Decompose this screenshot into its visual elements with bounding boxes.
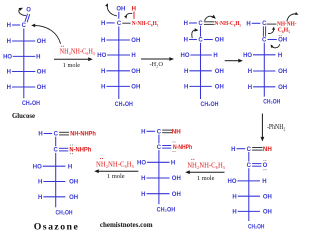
svg-text:HO: HO bbox=[33, 164, 42, 170]
S5 chain vertical bond bbox=[248, 168, 250, 221]
svg-text:C: C bbox=[157, 145, 162, 151]
svg-text:H: H bbox=[7, 70, 11, 76]
S6 C1=NH double bond bbox=[162, 129, 172, 131]
svg-text:C: C bbox=[262, 21, 267, 27]
arrow S4 down bbox=[261, 114, 263, 138]
svg-text:OH: OH bbox=[37, 85, 46, 91]
arrow S1 to S2 bbox=[54, 58, 89, 60]
svg-text:OH: OH bbox=[278, 69, 287, 75]
svg-text:C: C bbox=[117, 21, 122, 27]
glucose chain vertical bond bbox=[23, 28, 25, 98]
S4 chain vertical bond bbox=[263, 43, 265, 97]
svg-text:OH: OH bbox=[278, 85, 287, 91]
svg-text:H: H bbox=[232, 210, 236, 216]
svg-text:1 mole: 1 mole bbox=[197, 175, 215, 182]
svg-text:C: C bbox=[198, 38, 203, 44]
curved arrow on glucose C=O bbox=[19, 9, 26, 15]
svg-text:H: H bbox=[7, 23, 11, 29]
arrow S2 to S3 bbox=[141, 58, 170, 60]
svg-text:H: H bbox=[7, 39, 11, 45]
svg-text:-H₂O: -H₂O bbox=[149, 61, 163, 68]
svg-text:H: H bbox=[141, 129, 145, 135]
svg-text:NH: NH bbox=[263, 147, 272, 153]
svg-text:NH₂NH-C₆H₅: NH₂NH-C₆H₅ bbox=[96, 162, 134, 169]
svg-text:-PhNH₂: -PhNH₂ bbox=[267, 123, 286, 131]
svg-text:H: H bbox=[246, 21, 250, 27]
svg-text:C: C bbox=[262, 38, 267, 44]
S7 C1=N double bond bbox=[59, 131, 69, 133]
svg-text:NH: NH bbox=[172, 129, 181, 135]
svg-text:H: H bbox=[101, 69, 105, 75]
svg-text:NH-NHPh: NH-NHPh bbox=[70, 132, 96, 138]
svg-text:H: H bbox=[184, 69, 188, 75]
svg-text:1 mole: 1 mole bbox=[107, 173, 125, 180]
svg-text:CH₂OH: CH₂OH bbox=[56, 210, 73, 217]
svg-text:H: H bbox=[248, 85, 252, 91]
S5 C1=NH double bond bbox=[252, 147, 263, 149]
svg-text:OH: OH bbox=[172, 176, 181, 182]
svg-text:C: C bbox=[22, 23, 27, 29]
svg-text:Osazone: Osazone bbox=[34, 221, 80, 232]
S4 curved arrow C to N bbox=[268, 28, 274, 34]
arrow S3 to S4 bbox=[225, 60, 239, 62]
svg-text:Glucose: Glucose bbox=[12, 113, 35, 120]
svg-text:OH: OH bbox=[172, 192, 181, 198]
svg-text:C₆H₅: C₆H₅ bbox=[278, 26, 290, 33]
svg-text:H: H bbox=[184, 85, 188, 91]
S3 C1-C2 bond bbox=[200, 26, 202, 37]
svg-text:H: H bbox=[101, 85, 105, 91]
svg-text:1 mole: 1 mole bbox=[63, 62, 80, 69]
S4 C1-N bond bbox=[267, 23, 277, 25]
svg-text:H: H bbox=[38, 180, 42, 186]
S3 C2-OH bond bbox=[204, 39, 213, 41]
svg-text:N-NHPh: N-NHPh bbox=[173, 145, 192, 151]
S7 C1-C2 bond bbox=[55, 137, 57, 147]
svg-text:HO: HO bbox=[181, 53, 190, 59]
svg-text:CH₂OH: CH₂OH bbox=[22, 100, 40, 107]
svg-text:HO: HO bbox=[243, 53, 252, 59]
S5 dots above O bbox=[263, 160, 264, 161]
svg-text:O: O bbox=[26, 7, 31, 13]
svg-text:chemistnotes.com: chemistnotes.com bbox=[100, 221, 153, 229]
S6 C1-C2 bond bbox=[158, 135, 160, 144]
S7 chain vertical bond bbox=[55, 153, 57, 207]
S4 C2-OH bond bbox=[268, 39, 277, 41]
S7 marks above N bbox=[70, 144, 71, 145]
svg-text:OH: OH bbox=[37, 70, 46, 76]
svg-text:H: H bbox=[141, 192, 145, 198]
S4 H-C1 bond bbox=[252, 22, 261, 24]
svg-text:HO: HO bbox=[97, 53, 106, 59]
svg-text:H: H bbox=[131, 53, 135, 59]
S2 chain vertical bond bbox=[118, 26, 120, 99]
svg-text:H: H bbox=[36, 55, 40, 61]
S3 C1=N double bond bbox=[204, 21, 214, 23]
S2 H-N bond (red) bbox=[133, 12, 135, 19]
svg-text:CH₂OH: CH₂OH bbox=[201, 101, 219, 108]
svg-text:NH₂NH-C₆H₅: NH₂NH-C₆H₅ bbox=[187, 162, 225, 169]
S7 H-C1 bond bbox=[44, 133, 52, 135]
lone pair dots reagent 3 bbox=[100, 158, 101, 159]
arrow S6 to S7 bbox=[98, 170, 138, 172]
S3 chain vertical bond bbox=[200, 43, 202, 99]
svg-text:CH₂OH: CH₂OH bbox=[115, 101, 133, 108]
svg-text:HO: HO bbox=[3, 55, 12, 61]
S3 curved arrow from C2-H bbox=[192, 30, 195, 38]
svg-text:H: H bbox=[231, 147, 235, 153]
svg-text:OH: OH bbox=[131, 69, 140, 75]
svg-text:H: H bbox=[262, 179, 266, 185]
glucose H-C1 bond bbox=[12, 24, 20, 26]
S3 H-C2 bond bbox=[189, 39, 197, 41]
S6 marks above N bbox=[172, 141, 173, 142]
svg-text:H: H bbox=[278, 53, 282, 59]
svg-text:OH: OH bbox=[263, 194, 272, 200]
svg-text:N·NH-C₆H₅: N·NH-C₆H₅ bbox=[215, 20, 242, 27]
svg-text:HO: HO bbox=[228, 179, 237, 185]
S7 C2=N double bond bbox=[59, 147, 68, 149]
svg-text:OH: OH bbox=[215, 69, 224, 75]
svg-text:CH₂OH: CH₂OH bbox=[248, 223, 265, 230]
lone pair dots on reagent N bbox=[61, 46, 62, 47]
svg-text:OH: OH bbox=[263, 210, 272, 216]
svg-text:H: H bbox=[213, 53, 217, 59]
svg-text:OH: OH bbox=[131, 38, 140, 44]
S6 H-C1 bond bbox=[147, 130, 156, 132]
curved arrow phenylhydrazine to C1 bbox=[35, 25, 61, 43]
S5 H-C1 bond bbox=[237, 148, 246, 150]
svg-text:N-NHPh: N-NHPh bbox=[69, 148, 91, 154]
svg-text:OH: OH bbox=[278, 38, 287, 44]
svg-text:CH₂OH: CH₂OH bbox=[157, 207, 176, 214]
svg-text:H: H bbox=[38, 132, 42, 138]
svg-text:HO: HO bbox=[137, 160, 146, 166]
svg-text:H: H bbox=[248, 69, 252, 75]
svg-text:C: C bbox=[247, 163, 252, 169]
S5 dots below O bbox=[263, 169, 264, 170]
svg-text:H: H bbox=[38, 195, 42, 201]
svg-text:OH: OH bbox=[215, 85, 224, 91]
S4 curved arrow under C2-OH bbox=[271, 44, 279, 48]
svg-text:OH: OH bbox=[37, 39, 46, 45]
S3 curved arrow over C=N bbox=[205, 16, 213, 21]
S2 C1-N bond bbox=[122, 22, 130, 24]
svg-text:N·NH-C₆H₅: N·NH-C₆H₅ bbox=[132, 20, 159, 27]
lone pair dots reagent 2 bbox=[191, 159, 192, 160]
S4 curved arrow top right bbox=[287, 14, 297, 21]
svg-text:C: C bbox=[54, 148, 59, 154]
svg-text:OH: OH bbox=[131, 85, 140, 91]
S6 chain vertical bond bbox=[158, 150, 160, 204]
svg-text:H: H bbox=[101, 38, 105, 44]
svg-text:H: H bbox=[101, 21, 105, 27]
S4 C1=C2 double bond bbox=[262, 26, 264, 36]
S4 dots above O bbox=[279, 35, 280, 36]
S2 H-C1 bond bbox=[106, 22, 114, 24]
svg-text:H: H bbox=[68, 164, 72, 170]
svg-text:H: H bbox=[232, 194, 236, 200]
svg-text:H: H bbox=[141, 176, 145, 182]
S6 marks below N bbox=[172, 151, 173, 152]
S5 C1-C2 bond bbox=[248, 152, 250, 162]
S2 curved arrow C to OH bbox=[107, 4, 117, 16]
S7 marks below N bbox=[70, 153, 71, 154]
S2 curved arrow at N bbox=[126, 13, 132, 17]
svg-text:H: H bbox=[184, 21, 188, 27]
svg-text:OH: OH bbox=[69, 180, 78, 186]
svg-text:H: H bbox=[132, 6, 136, 12]
svg-text:CH₂OH: CH₂OH bbox=[263, 99, 280, 106]
svg-text:OH: OH bbox=[215, 38, 224, 44]
svg-text:NH₂NH-C₆H₅: NH₂NH-C₆H₅ bbox=[60, 48, 96, 55]
S3 H-C1 bond bbox=[189, 22, 197, 24]
svg-text:H: H bbox=[7, 85, 11, 91]
svg-text:O: O bbox=[263, 163, 268, 169]
arrow S5 to S6 bbox=[189, 171, 224, 173]
svg-text:OH: OH bbox=[69, 195, 78, 201]
svg-text:H: H bbox=[171, 160, 175, 166]
svg-text:OH: OH bbox=[116, 6, 125, 12]
S5 C2=O double bond bbox=[252, 163, 261, 165]
S2 O-C1 bond bbox=[118, 12, 120, 19]
glucose C1=O double bond bbox=[25, 14, 28, 22]
S6 C2=N double bond bbox=[162, 145, 171, 147]
svg-text:H: H bbox=[184, 38, 188, 44]
